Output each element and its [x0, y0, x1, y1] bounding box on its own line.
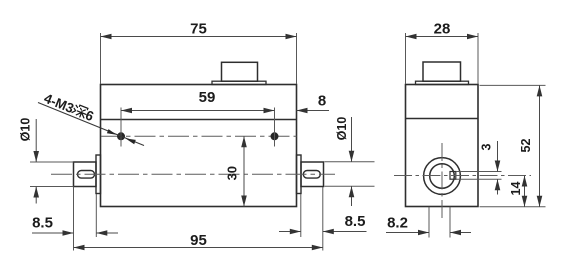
- dim 8.5 right line: [279, 231, 301, 233]
- dim 8.5 left extension A: [73, 187, 75, 251]
- left view body internal edge: [101, 119, 297, 121]
- dim dia10 right extension bottom: [325, 185, 375, 187]
- dim 52 line: [539, 85, 541, 206]
- left shaft: [74, 162, 97, 187]
- svg-text:3: 3: [480, 143, 494, 150]
- svg-text:52: 52: [519, 139, 533, 153]
- dim 52 extension top: [480, 84, 546, 86]
- left shaft slot: [78, 171, 95, 179]
- dim 8.5 right extension A: [300, 194, 302, 237]
- svg-text:8.2: 8.2: [387, 215, 408, 232]
- svg-text:14: 14: [509, 182, 523, 196]
- horizontal centerline: [51, 173, 335, 175]
- svg-text:8.5: 8.5: [32, 215, 53, 232]
- dim 59 line: [121, 110, 275, 112]
- left view body outline: [101, 85, 297, 207]
- dim dia10 right line: [351, 117, 353, 162]
- mounting hole right (dot): [271, 132, 279, 140]
- vertical centerline: [441, 143, 443, 220]
- mounting hole left (dot): [117, 132, 125, 140]
- side view body internal edge: [406, 118, 479, 120]
- right shaft: [301, 162, 324, 187]
- svg-text:8: 8: [318, 93, 326, 110]
- dim 28 extension left: [405, 33, 407, 84]
- dim 28 extension right: [477, 33, 479, 84]
- svg-text:59: 59: [199, 89, 216, 106]
- right shaft collar: [297, 155, 302, 194]
- svg-text:28: 28: [434, 21, 451, 38]
- shaft outer circle: [424, 158, 461, 195]
- connector block (front view): [222, 62, 258, 81]
- leader arrowhead lower: [126, 138, 136, 144]
- dim 8.2 extension right: [449, 207, 451, 238]
- label 4-M3 deep 6: [42, 91, 96, 125]
- dim dia10 left extension top: [30, 161, 74, 163]
- side view body outline: [406, 85, 479, 207]
- dim 8.5 left line: [32, 232, 74, 234]
- dim dia10 left extension bottom: [30, 186, 74, 188]
- extension line through left hole: [120, 108, 122, 147]
- extension line through right hole: [274, 108, 276, 147]
- dim 8.5 right extension B: [322, 187, 324, 251]
- svg-text:Ø10: Ø10: [19, 118, 33, 142]
- dim 95 line: [74, 247, 323, 249]
- dim 8.2 extension left: [428, 207, 430, 238]
- dim dia10 right extension top: [325, 161, 375, 163]
- svg-text:95: 95: [190, 232, 207, 249]
- dim 52 extension bottom: [480, 206, 546, 208]
- left shaft collar: [96, 155, 101, 194]
- connector base plate (front view): [212, 81, 266, 84]
- dim 75 line: [101, 36, 297, 38]
- mounting-hole centerline: [101, 135, 297, 137]
- leader line for 4-M3 holes: [38, 103, 144, 146]
- dim 14 line: [524, 176, 526, 207]
- dim 3 extension bottom: [456, 178, 502, 180]
- horizontal centerline: [394, 175, 531, 177]
- dim 8.2 line: [386, 232, 429, 234]
- dim dia10 left line: [35, 119, 37, 162]
- dim 75 extension line right: [296, 33, 298, 84]
- connector block (side view): [423, 62, 461, 81]
- keyway slot: [450, 172, 456, 180]
- connector base plate (side view): [416, 81, 469, 84]
- dim 30 line: [243, 136, 245, 206]
- shaft bore circle: [430, 164, 455, 189]
- dim 75 extension line left: [100, 33, 102, 84]
- right shaft slot: [303, 171, 320, 179]
- dim 3 extension top: [456, 171, 502, 173]
- svg-text:75: 75: [190, 21, 207, 38]
- svg-text:Ø10: Ø10: [335, 117, 349, 141]
- leader arrowhead upper: [107, 129, 117, 135]
- dim 8 line: [297, 110, 330, 112]
- dim 28 line: [406, 36, 479, 38]
- dim 3 line: [497, 141, 499, 172]
- svg-text:30: 30: [225, 166, 240, 180]
- svg-text:8.5: 8.5: [345, 213, 366, 230]
- dim 8.5 left extension B: [95, 194, 97, 237]
